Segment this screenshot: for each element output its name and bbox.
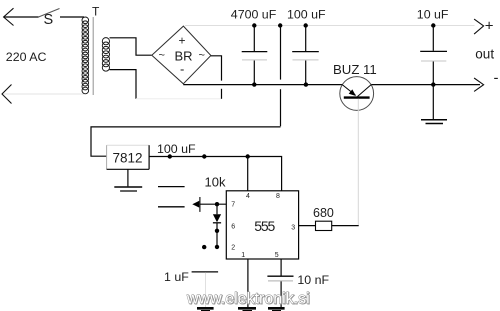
svg-text:220 AC: 220 AC — [6, 50, 47, 64]
arrow out minus — [474, 78, 484, 91]
capacitor C1 4700uF lead top — [253, 26, 255, 52]
wire gate lead down (faint) — [357, 99, 359, 226]
svg-text:T: T — [92, 5, 100, 19]
svg-text:555: 555 — [254, 218, 275, 234]
bridge rectifier BR diamond — [152, 26, 211, 84]
diode D1 lead top — [216, 204, 218, 214]
capacitor C2 plate1 — [292, 51, 319, 53]
capacitor C4 100uF plate2 — [158, 206, 185, 208]
arrow out plus — [474, 19, 484, 34]
transformer T primary winding — [82, 17, 89, 94]
ground below 1uF — [197, 307, 214, 310]
wire secondary bottom horizontal (faint) — [136, 98, 222, 100]
svg-text:5: 5 — [275, 252, 279, 259]
svg-text:~: ~ — [199, 50, 205, 62]
svg-text:BUZ 11: BUZ 11 — [333, 62, 377, 77]
capacitor C6 1uF plate — [192, 271, 219, 273]
capacitor C2 100uF lead top — [305, 26, 307, 52]
capacitor C5 10nF plate2 (light) — [268, 280, 293, 282]
ground below 10nF — [268, 307, 285, 310]
capacitor C4 100uF plate1 — [158, 186, 185, 188]
svg-text:3: 3 — [291, 224, 295, 231]
capacitor C6 faint lead down — [205, 272, 207, 307]
node dot rail C4 — [168, 154, 172, 158]
regulator U2 7812 box — [107, 145, 150, 169]
svg-text:4700 uF: 4700 uF — [231, 7, 277, 21]
svg-text:10k: 10k — [205, 174, 226, 189]
wire 555 pin1 down — [247, 259, 249, 307]
node dot pin6 junction — [215, 229, 219, 233]
capacitor C5 10nF plate1 — [267, 275, 293, 277]
node dot feed top — [278, 23, 282, 27]
transistor Q1 gate bar — [344, 96, 370, 98]
capacitor C3 lead bottom — [432, 62, 434, 85]
svg-text:out: out — [475, 46, 494, 61]
wire 555 pin3 out — [299, 225, 316, 227]
svg-text:680: 680 — [313, 206, 334, 220]
wire 7812 to ground — [127, 169, 129, 186]
ground below 10uF bar1 — [421, 119, 447, 121]
wire feed vertical above bus — [280, 26, 282, 80]
node dot rail 10k — [202, 154, 206, 158]
wire feed vertical below bus — [280, 89, 282, 126]
ground below 7812 bar1 — [114, 186, 142, 188]
svg-text:100 uF: 100 uF — [157, 142, 196, 156]
node dot C3 on bus — [431, 82, 435, 86]
svg-text:7812: 7812 — [113, 150, 143, 165]
capacitor C5 lead bottom — [280, 281, 282, 307]
svg-text:1: 1 — [241, 252, 245, 259]
wire rail to 555 pin4 — [247, 157, 249, 191]
minus bus from bridge bottom — [183, 84, 342, 86]
transformer T secondary winding — [102, 38, 109, 72]
transistor Q1 left diagonal — [342, 85, 355, 96]
svg-text:4: 4 — [246, 193, 250, 200]
node dot rail pin4 — [246, 154, 250, 158]
resistor R2 680 body — [316, 221, 332, 230]
capacitor C3 plate2 (faint) — [421, 60, 446, 62]
transformer T core — [92, 17, 94, 95]
wire 12V rail — [149, 157, 282, 191]
diode D1 cathode bar — [213, 222, 221, 224]
svg-text:www.elektronik.si: www.elektronik.si — [186, 291, 310, 308]
wire up to bridge right vertex (below bus) — [221, 89, 223, 99]
node dot C2 top — [304, 23, 308, 27]
arrow AC input bottom — [2, 85, 12, 104]
wire up to bridge right vertex (above bus) — [211, 56, 222, 81]
capacitor C1 plate2 (faint) — [242, 59, 267, 61]
wire 555 pin5 down to 10nF — [280, 259, 282, 276]
ground below 555 pin1 — [238, 307, 256, 310]
svg-text:10 uF: 10 uF — [417, 7, 449, 21]
svg-text:10 nF: 10 nF — [297, 273, 329, 287]
wire secondary top to bridge — [110, 38, 152, 55]
svg-text:-: - — [180, 62, 184, 77]
svg-text:100 uF: 100 uF — [287, 7, 326, 21]
transistor Q1 BUZ11 circle — [340, 77, 374, 111]
svg-text:6: 6 — [231, 224, 235, 231]
transistor Q1 arrowhead — [349, 89, 356, 96]
switch S blade — [39, 9, 60, 18]
wire C3 to ground — [432, 85, 434, 120]
svg-text:1 uF: 1 uF — [164, 270, 189, 284]
minus bus right of transistor — [371, 84, 480, 86]
capacitor C1 plate1 — [242, 51, 268, 53]
node dot C1 top — [252, 23, 256, 27]
wire AC line1 top-left — [4, 16, 39, 18]
capacitor C2 lead bottom — [305, 61, 307, 85]
node dot C2 bottom — [304, 82, 308, 86]
timer U1 555 box — [226, 191, 298, 259]
pot wiper bar — [199, 197, 201, 212]
ground below 10uF bar2 — [426, 123, 444, 125]
wire feed horizontal to left — [91, 127, 281, 156]
svg-text:2: 2 — [231, 245, 235, 252]
pot wiper arrowhead — [192, 201, 199, 208]
wire switch to transformer — [60, 16, 84, 18]
node dot 1uF top — [202, 245, 206, 249]
wire 680 to gate lead — [332, 225, 359, 227]
wire secondary bottom leg — [110, 70, 137, 99]
svg-text:-: - — [494, 70, 499, 87]
node dot C3 top — [431, 23, 435, 27]
capacitor C3 plate1 — [420, 50, 447, 52]
diode D1 lead bottom — [216, 223, 218, 247]
node dot pin2 junction — [215, 245, 219, 249]
svg-text:8: 8 — [276, 193, 280, 200]
diode D1 triangle — [213, 214, 221, 222]
node dot C1 bottom — [252, 82, 256, 86]
svg-text:S: S — [44, 12, 54, 28]
capacitor C3 10uF lead top — [432, 26, 434, 51]
svg-text:+: + — [179, 34, 186, 48]
plus rail top (faint) — [185, 25, 475, 27]
ground below 7812 bar2 — [120, 190, 137, 192]
node dot pin7 junction — [215, 202, 219, 206]
svg-text:~: ~ — [159, 50, 165, 62]
transistor Q1 right diagonal — [358, 85, 372, 97]
arrow AC input top — [4, 8, 14, 25]
wire 555 pin7 to pot — [200, 203, 227, 205]
svg-text:+: + — [485, 18, 494, 35]
capacitor C1 lead bottom — [253, 61, 255, 85]
capacitor C2 plate2 (faint) — [293, 59, 319, 61]
wire AC line2 bottom (faint) — [3, 93, 84, 95]
svg-text:7: 7 — [231, 201, 235, 208]
